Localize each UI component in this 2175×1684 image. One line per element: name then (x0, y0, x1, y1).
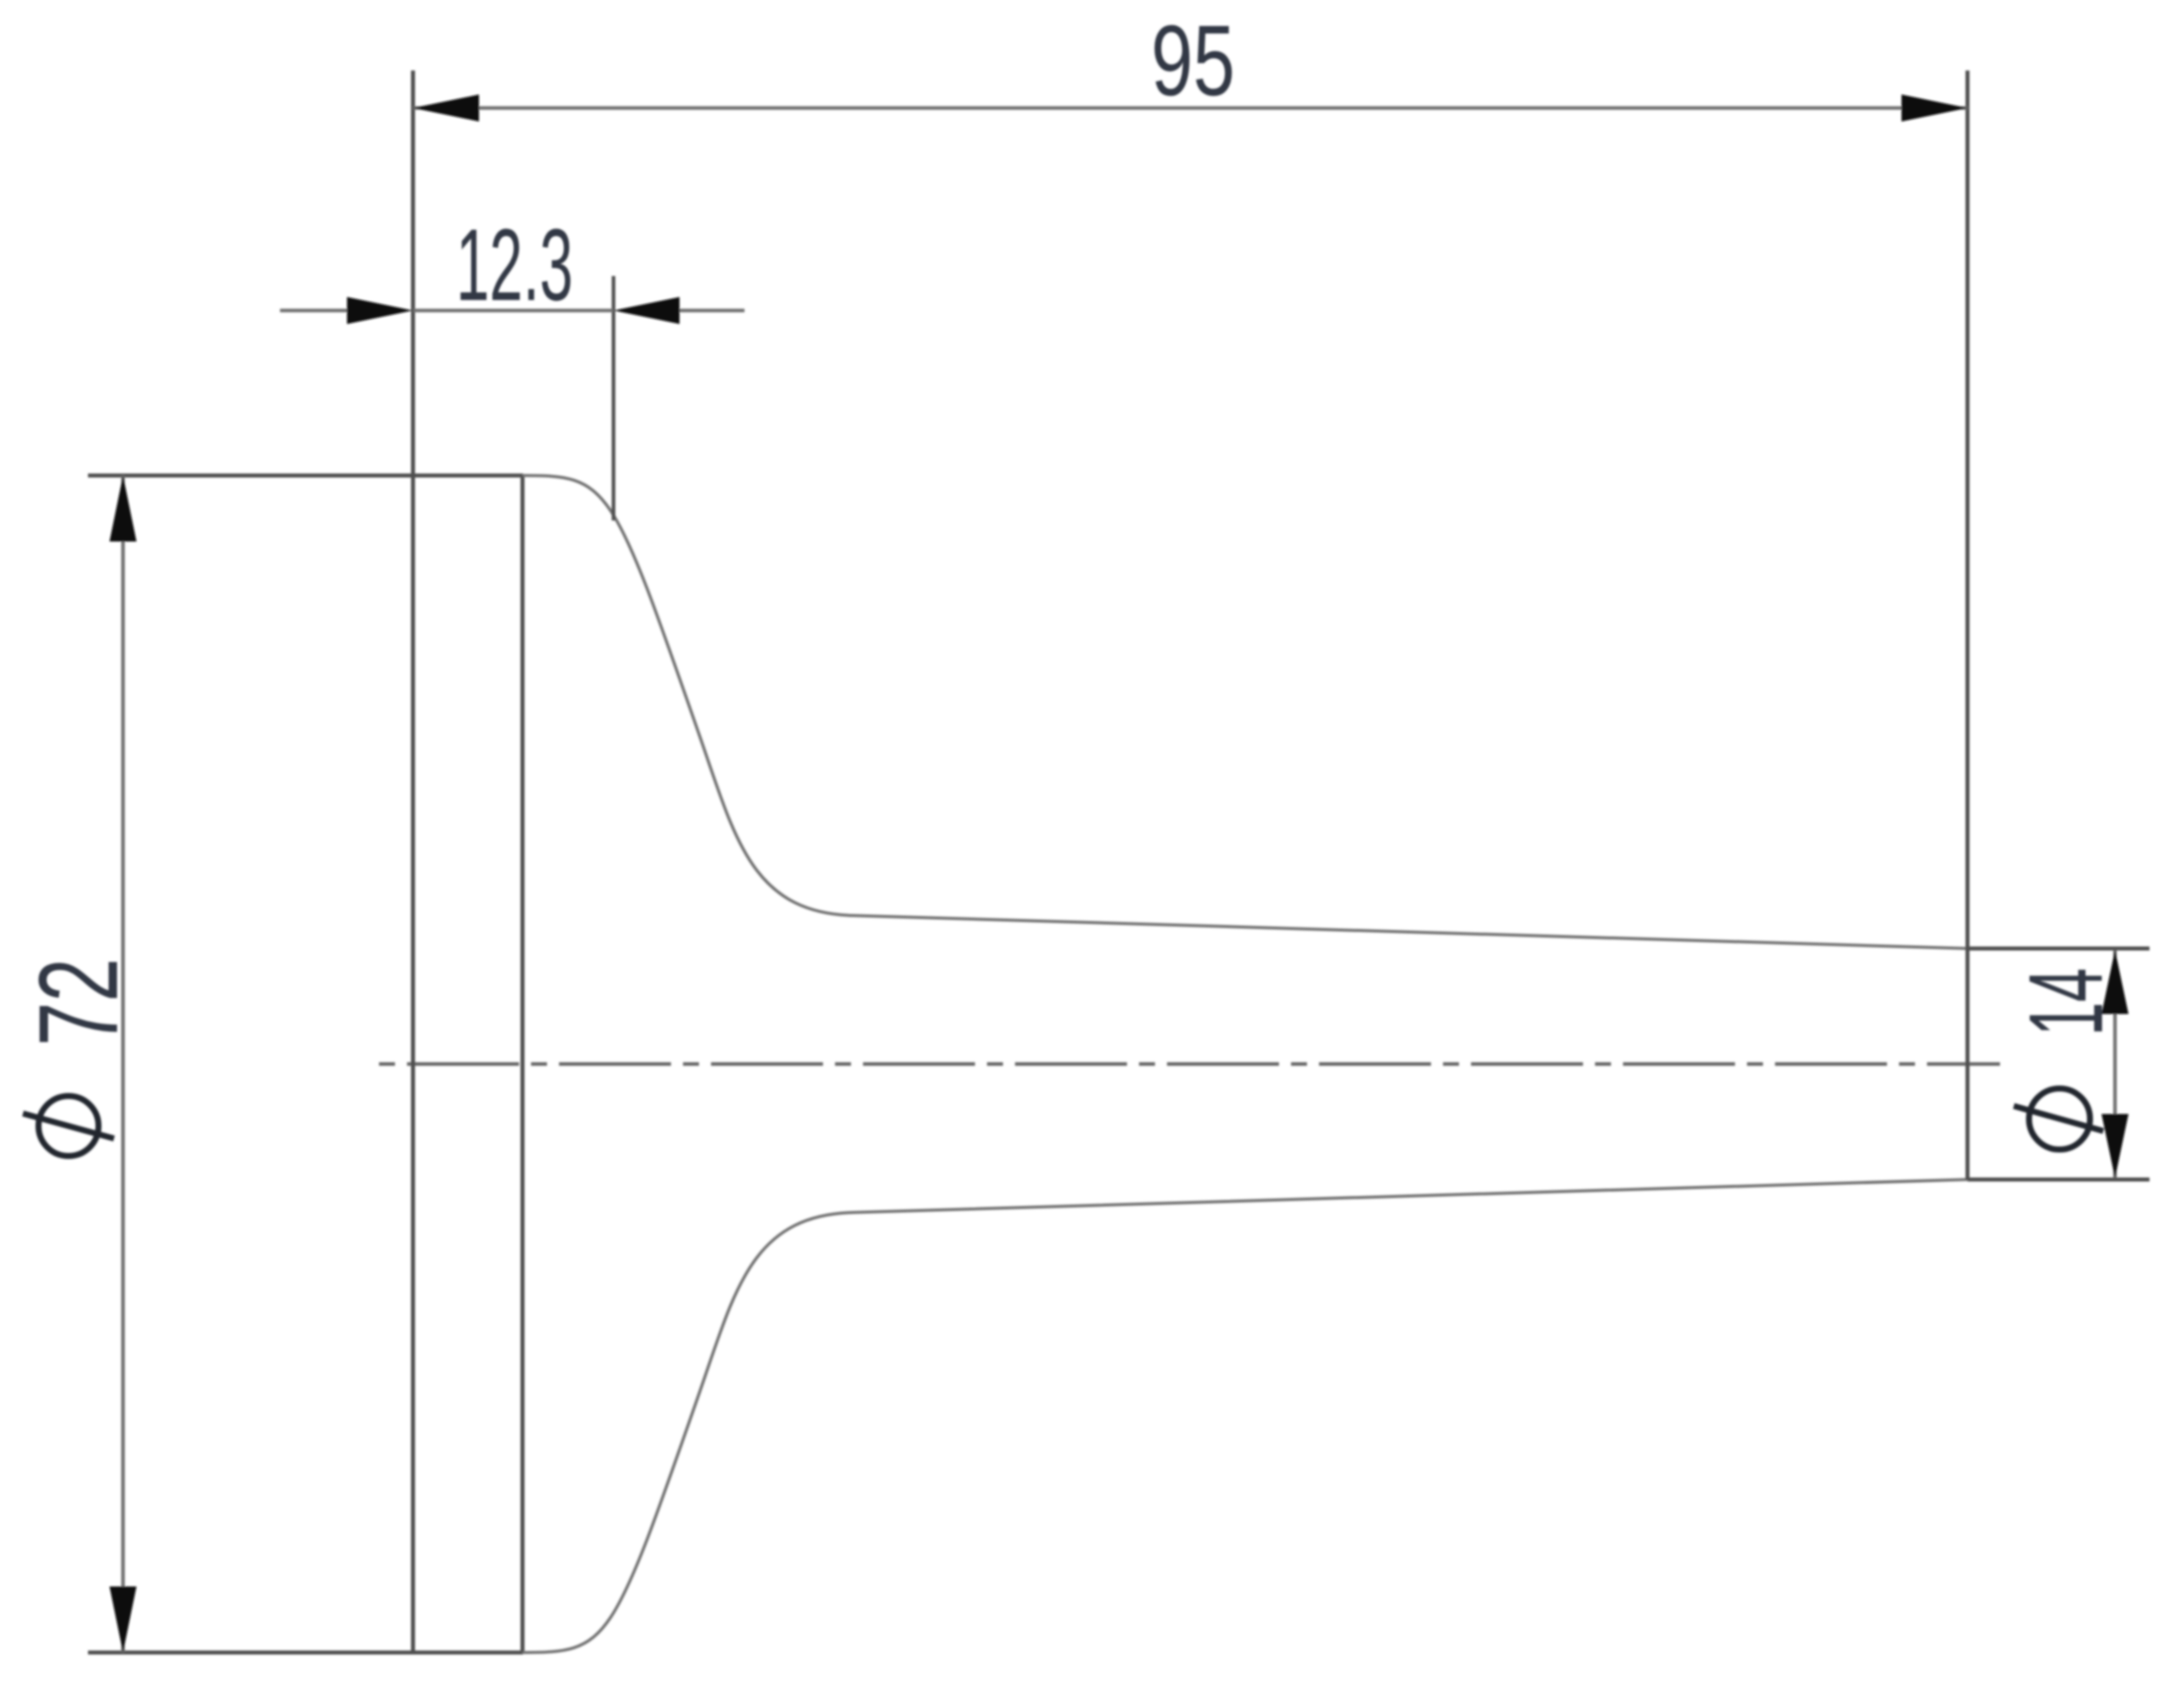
svg-text:72: 72 (16, 958, 141, 1046)
arrowhead 12.3 left (points right) (347, 297, 413, 324)
phi14 bottom extension line (1968, 1178, 2150, 1182)
dimension line 12.3 right tail (680, 309, 745, 313)
dimension line 12.3 left tail (280, 309, 347, 313)
arrowhead 12.3 right (points left) (614, 297, 680, 324)
phi14 top extension line (1968, 947, 2150, 951)
svg-text:95: 95 (1151, 5, 1235, 117)
top profile: head fairing curve into stem taper (523, 476, 1968, 949)
arrowhead phi72 top (points up) (110, 476, 137, 542)
dimension line phi 14 (vertical, right) (2113, 950, 2117, 1178)
arrowhead 95 right (1902, 95, 1968, 122)
centerline axis (dash-dot) (379, 1062, 2000, 1066)
svg-text:12.3: 12.3 (456, 208, 573, 322)
dimension 12.3 extension line (612, 276, 616, 521)
dimension line 95 (413, 106, 1968, 110)
arrowhead phi14 bottom (points down) (2102, 1114, 2129, 1178)
valve head top face + phi72 top extension line (88, 474, 523, 478)
diameter symbol of phi14 (2014, 1089, 2104, 1150)
arrowhead 95 left (413, 95, 479, 122)
dimension line 12.3 middle (413, 309, 614, 313)
diameter symbol of phi72 (23, 1096, 114, 1156)
svg-text:14: 14 (2008, 968, 2125, 1036)
arrowhead phi72 bottom (points down) (110, 1587, 137, 1653)
valve left face (and extension up to 95 dim) (411, 71, 415, 1653)
head margin edge line (521, 476, 525, 1653)
bottom profile: head fairing curve into stem taper (523, 1180, 1968, 1653)
stem right end face + extension up to 95 dim (1966, 71, 1970, 1180)
arrowhead phi14 top (points up) (2102, 950, 2129, 1014)
dimension line phi 72 (vertical, left) (121, 476, 125, 1653)
valve head bottom face + phi72 bottom extension line (88, 1651, 523, 1655)
